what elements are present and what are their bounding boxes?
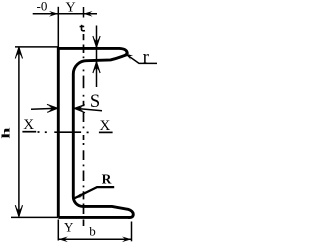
svg-text:S: S: [90, 92, 100, 112]
svg-text:Y: Y: [64, 220, 74, 235]
svg-text:R: R: [102, 172, 112, 187]
svg-text:h: h: [0, 128, 12, 139]
svg-text:X: X: [100, 118, 111, 134]
svg-text:-0: -0: [37, 0, 48, 14]
svg-text:Y: Y: [66, 1, 76, 16]
svg-text:b: b: [89, 223, 96, 238]
svg-text:X: X: [23, 117, 34, 133]
svg-text:r: r: [143, 47, 150, 68]
